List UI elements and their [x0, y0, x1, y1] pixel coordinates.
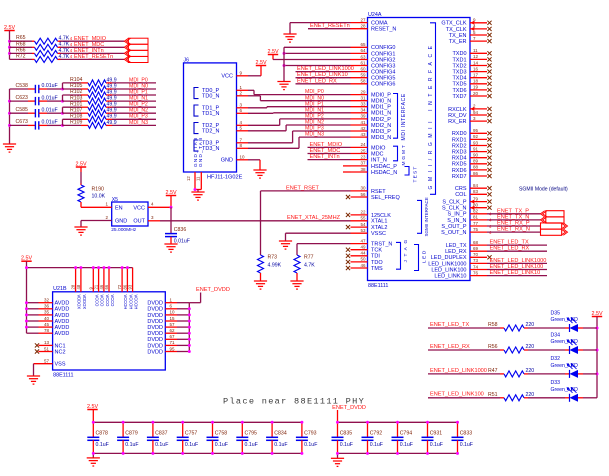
svg-text:MDI_P3: MDI_P3	[305, 126, 324, 132]
pin 4 TD2_P (J6)	[202, 120, 248, 129]
svg-text:39: 39	[360, 114, 366, 119]
svg-text:7: 7	[240, 138, 243, 143]
svg-text:TDO: TDO	[371, 260, 383, 266]
bracket LED	[414, 245, 427, 271]
svg-text:LED_RX: LED_RX	[445, 249, 467, 255]
pin 11 GND_TAB	[195, 172, 201, 190]
pin 57 DVDD (U21B)	[147, 322, 189, 331]
svg-text:46: 46	[360, 263, 366, 268]
svg-text:88: 88	[473, 165, 479, 170]
svg-text:DVDD: DVDD	[147, 307, 163, 313]
wire ENET_DVDD bus	[189, 293, 200, 352]
svg-text:2.5V: 2.5V	[267, 49, 278, 55]
svg-text:VCCOH: VCCOH	[134, 295, 139, 310]
svg-text:R104: R104	[70, 77, 83, 83]
pin 81 S_IN_N (U24A)	[447, 215, 487, 224]
svg-text:CONFIG1: CONFIG1	[371, 51, 395, 57]
svg-text:77: 77	[473, 221, 479, 226]
wire VSSC to ground	[286, 233, 351, 241]
svg-text:VDDOX: VDDOX	[82, 295, 87, 310]
svg-text:TX_ER: TX_ER	[449, 39, 467, 45]
net label ENET_DVDD (right cap bank)	[332, 405, 366, 422]
svg-text:54: 54	[360, 222, 366, 227]
pin 41 MDI2_N (U24A)	[351, 120, 392, 129]
svg-text:0.1uF: 0.1uF	[370, 442, 383, 448]
svg-text:TXD2: TXD2	[452, 63, 466, 69]
svg-text:C585: C585	[16, 107, 29, 113]
svg-text:82: 82	[473, 209, 479, 214]
power 2.5V (CONFIG2)	[267, 49, 278, 55]
pin 57 VSS (U21B)	[34, 359, 66, 377]
svg-text:C835: C835	[340, 431, 353, 437]
svg-text:24: 24	[360, 142, 366, 147]
svg-text:4.7K: 4.7K	[304, 263, 315, 269]
svg-text:27: 27	[360, 17, 366, 22]
svg-text:47: 47	[360, 238, 366, 243]
wire left bank bottom bus	[93, 453, 302, 458]
net label ENET_XTAL_25MHZ	[287, 215, 341, 221]
svg-text:CONFIG5: CONFIG5	[371, 76, 395, 82]
wire TRST_N pulldown	[297, 244, 351, 255]
svg-text:AVDD: AVDD	[55, 319, 70, 325]
svg-text:ENET_RSET: ENET_RSET	[286, 185, 320, 191]
resistor R51 220	[488, 392, 534, 401]
no-connect X (U24A left pin)	[346, 225, 350, 229]
svg-text:2.5V: 2.5V	[165, 190, 176, 196]
svg-text:Green_LED: Green_LED	[551, 387, 579, 393]
node junction CONFIG1	[283, 52, 286, 55]
svg-text:J6: J6	[184, 58, 190, 64]
svg-text:48: 48	[76, 284, 81, 289]
pin 73 LED_LINK1000 (U24A)	[428, 258, 487, 267]
svg-text:MDI_N1: MDI_N1	[129, 96, 148, 102]
svg-text:4.7K: 4.7K	[59, 42, 70, 48]
svg-text:D32: D32	[551, 356, 561, 362]
svg-text:S_OUT_N: S_OUT_N	[441, 230, 466, 236]
label GND_TAB pins	[193, 137, 203, 167]
svg-text:C833: C833	[460, 431, 473, 437]
node junctions LED rail	[596, 327, 599, 376]
wire ENET_LED_LINK1000 row	[428, 373, 597, 375]
node junctions AVDD bus	[25, 301, 28, 328]
svg-text:HSDAC_N: HSDAC_N	[371, 170, 397, 176]
wire right bank top bus	[338, 421, 458, 423]
svg-text:64: 64	[360, 48, 366, 53]
node junction C673	[61, 124, 64, 127]
net label MDI_P2	[305, 114, 324, 120]
svg-text:R68: R68	[16, 41, 26, 47]
pin 92 RXD1 (U24A)	[452, 134, 492, 143]
svg-text:61: 61	[360, 60, 366, 65]
svg-text:MDI_P1: MDI_P1	[305, 101, 324, 107]
svg-text:49.9: 49.9	[107, 89, 117, 95]
pin 6 DVDD (U21B)	[147, 304, 189, 313]
svg-text:ENET_RESETn: ENET_RESETn	[310, 23, 350, 29]
pin 37 HSDAC_P (U24A)	[351, 161, 398, 170]
no-connect X (U24A left pin)	[346, 248, 350, 252]
svg-text:MDI_P0: MDI_P0	[129, 77, 148, 83]
pin 12 TXD1 (U24A)	[452, 54, 491, 63]
svg-text:43: 43	[360, 132, 366, 137]
svg-text:22: 22	[360, 210, 366, 215]
wire ENET_LED_LINK100 row	[428, 397, 597, 399]
pin 4 VCC	[148, 202, 171, 208]
pin 8 TD3_N (J6)	[202, 143, 248, 152]
svg-text:C757: C757	[185, 431, 198, 437]
svg-text:C879: C879	[125, 431, 138, 437]
svg-text:49.9: 49.9	[107, 114, 117, 120]
pin 38 HSDAC_N (U24A)	[351, 167, 398, 176]
pin 62 DVDD (U21B)	[147, 328, 189, 337]
pin 2 TD0_N (J6)	[202, 91, 248, 100]
svg-text:2.5V: 2.5V	[255, 60, 266, 66]
net label MDI_P0	[129, 77, 148, 83]
net label ENET_LED_RX (CONFIG6)	[296, 78, 351, 84]
svg-text:MDI_P1: MDI_P1	[129, 89, 148, 95]
svg-text:XTAL1: XTAL1	[371, 219, 387, 225]
svg-text:CONFIG6: CONFIG6	[371, 82, 395, 88]
pin 9 VCC (J6)	[221, 71, 248, 80]
svg-text:DVDD: DVDD	[147, 349, 163, 355]
pin 45 AVDD (U21B)	[27, 322, 70, 331]
svg-text:75: 75	[473, 227, 479, 232]
capacitor C878 0.1uF	[87, 421, 108, 455]
svg-text:ENET_LED_TX: ENET_LED_TX	[490, 240, 529, 246]
svg-text:TXD3: TXD3	[452, 70, 466, 76]
off-page connector ENET_RX_P	[541, 223, 568, 229]
no-connect X (U24A left pin)	[346, 266, 350, 270]
wire ENET_RSET	[261, 191, 351, 255]
net label MDI_N1	[305, 107, 324, 113]
resistor R66 4.7K	[16, 47, 73, 56]
off-page connector ENET_RESETn	[124, 56, 148, 62]
wire ENET_LED_RX row	[428, 349, 597, 351]
svg-text:93: 93	[128, 284, 133, 289]
power 2.5V (J6 VCC)	[255, 60, 266, 66]
svg-text:4.7K: 4.7K	[59, 54, 70, 60]
svg-text:DVDD: DVDD	[147, 301, 163, 307]
svg-text:S_CLK_P: S_CLK_P	[442, 200, 466, 206]
resistor R77 4.7K	[294, 255, 315, 282]
wire CONFIG2 strap	[273, 55, 351, 60]
svg-text:Green_LED: Green_LED	[551, 317, 579, 323]
svg-text:DVDD: DVDD	[147, 319, 163, 325]
pin 76 LED_LINK10 (U24A)	[434, 270, 487, 279]
svg-text:SEL_FREQ: SEL_FREQ	[371, 195, 400, 201]
svg-text:66: 66	[104, 284, 109, 289]
svg-text:MGMT: MGMT	[401, 143, 407, 165]
svg-text:0.1uF: 0.1uF	[430, 442, 443, 448]
svg-text:LED_TX: LED_TX	[446, 243, 467, 249]
resistor R190 10.0K	[78, 167, 106, 207]
capacitor C585 0.01uF	[10, 107, 63, 117]
svg-text:R72: R72	[16, 53, 26, 59]
wire MDI_P2 row	[63, 107, 157, 113]
pin 4 TX_CLK (U24A)	[446, 24, 492, 33]
net label ENET_LED_LINK100 (U24A)	[487, 264, 547, 270]
net label MDI_N0	[305, 95, 324, 101]
pin 6 TD1_N (J6)	[202, 108, 248, 117]
svg-text:93: 93	[473, 140, 479, 145]
svg-text:X5: X5	[112, 197, 118, 203]
svg-text:MDI1_P: MDI1_P	[371, 105, 391, 111]
net label ENET_LED_TX	[430, 322, 469, 328]
svg-text:95: 95	[473, 128, 479, 133]
pin 16 TXD3 (U24A)	[452, 66, 491, 75]
svg-text:86: 86	[473, 171, 479, 176]
svg-text:1: 1	[105, 202, 108, 207]
pin 2 GND	[81, 215, 112, 227]
svg-text:0.1uF: 0.1uF	[400, 442, 413, 448]
svg-text:ENET_LED_LINK100: ENET_LED_LINK100	[490, 264, 544, 270]
ground (J6 GND pin)	[253, 170, 266, 178]
net label MDI_P3	[129, 114, 148, 120]
svg-text:ENET_MDIO: ENET_MDIO	[74, 36, 107, 42]
svg-text:TXD7: TXD7	[452, 94, 466, 100]
svg-text:94: 94	[473, 110, 479, 115]
net label ENET_LED_RX (U24A)	[487, 246, 547, 252]
svg-text:Green_LED: Green_LED	[551, 339, 579, 345]
wire CONFIG1 strap	[284, 52, 351, 54]
pin 22 125CLK (U24A)	[351, 210, 392, 219]
svg-text:MDI INTERFACE: MDI INTERFACE	[401, 93, 407, 140]
svg-text:53: 53	[360, 228, 366, 233]
ground (right cap bank)	[331, 458, 344, 466]
svg-text:D35: D35	[551, 310, 561, 316]
LED D35 Green_LED	[551, 310, 579, 332]
pin 74 LED_LINK100 (U24A)	[431, 264, 487, 273]
svg-text:RESET_N: RESET_N	[371, 27, 396, 33]
svg-text:ENET_DVDD: ENET_DVDD	[196, 287, 230, 293]
svg-text:4.99K: 4.99K	[268, 263, 282, 269]
svg-text:17: 17	[473, 73, 479, 78]
svg-text:MDI_P0: MDI_P0	[305, 89, 324, 95]
svg-text:4: 4	[240, 120, 243, 125]
svg-text:ENET_LED_LINK100: ENET_LED_LINK100	[430, 392, 484, 398]
svg-text:TXD1: TXD1	[452, 57, 466, 63]
pin 51 NC2 (U21B)	[35, 346, 66, 355]
wire J6 GND	[248, 160, 260, 170]
node junction C585	[61, 112, 64, 115]
pair bracket (J6)	[194, 140, 199, 151]
pin 49 TCK (U24A)	[351, 245, 383, 254]
svg-text:TXD0: TXD0	[452, 51, 466, 57]
svg-text:C931: C931	[430, 431, 443, 437]
svg-text:65: 65	[360, 42, 366, 47]
svg-text:LED_LINK10: LED_LINK10	[434, 274, 466, 280]
svg-text:TRST_N: TRST_N	[371, 242, 392, 248]
svg-text:3: 3	[151, 215, 154, 220]
ground (C836)	[164, 244, 177, 252]
svg-text:HFJ11-1G02E: HFJ11-1G02E	[207, 175, 243, 181]
pin 43 MDI3_N (U24A)	[351, 132, 392, 141]
svg-text:2.5V: 2.5V	[591, 311, 602, 317]
svg-text:92: 92	[473, 134, 479, 139]
pin 60 CONFIG4 (U24A)	[351, 66, 396, 75]
capacitor C931 0.1uF	[422, 421, 443, 455]
svg-text:VCC: VCC	[221, 74, 233, 80]
pin 11 TXD0 (U24A)	[452, 48, 491, 57]
svg-text:U24A: U24A	[368, 12, 382, 18]
svg-text:TXD4: TXD4	[452, 76, 466, 82]
pin 10 DVDD (U21B)	[147, 310, 189, 319]
svg-text:ENET_LED_LINK10: ENET_LED_LINK10	[297, 72, 348, 78]
svg-text:CONFIG4: CONFIG4	[371, 70, 395, 76]
svg-text:62: 62	[170, 328, 176, 333]
pin 44 TDI (U24A)	[351, 251, 381, 260]
svg-text:73: 73	[473, 258, 479, 263]
resistor R56 220	[488, 344, 534, 353]
svg-text:68: 68	[473, 240, 479, 245]
wire 2.5V vertical bus	[9, 31, 11, 60]
wire CONFIG3 strap	[284, 65, 351, 67]
svg-text:78: 78	[44, 328, 50, 333]
svg-text:GND: GND	[221, 158, 233, 164]
capacitor C792 0.1uF	[362, 421, 383, 455]
svg-text:C758: C758	[215, 431, 228, 437]
pin 23 INT_N (U24A)	[351, 154, 387, 163]
resistor R72 4.7K	[16, 53, 73, 62]
svg-text:71: 71	[170, 340, 176, 345]
svg-text:49.9: 49.9	[107, 120, 117, 126]
svg-text:ENET_RX_N: ENET_RX_N	[497, 227, 530, 233]
off-page connector ENET_RX_N	[541, 229, 568, 235]
svg-text:R109: R109	[70, 120, 83, 126]
svg-text:2.5V: 2.5V	[21, 256, 32, 262]
pin 27 COMA (U24A)	[351, 17, 388, 26]
pin 17 TXD4 (U24A)	[452, 73, 491, 82]
svg-text:18: 18	[473, 79, 479, 84]
svg-text:49: 49	[360, 245, 366, 250]
svg-text:TX_CLK: TX_CLK	[446, 27, 467, 33]
ground (X5)	[74, 227, 87, 235]
pin 95 DVDD (U21B)	[147, 346, 189, 355]
wire left bank top bus	[93, 421, 302, 423]
svg-text:1: 1	[170, 298, 173, 303]
pin 68 LED_TX (U24A)	[446, 240, 487, 249]
svg-text:45: 45	[44, 322, 50, 327]
op-amp U21B 88E1111 power block	[53, 286, 166, 378]
ground (COMA)	[283, 34, 296, 42]
svg-text:57: 57	[170, 322, 176, 327]
pin 58 CONFIG6 (U24A)	[351, 79, 396, 88]
svg-text:72: 72	[117, 284, 122, 289]
svg-text:90: 90	[473, 153, 479, 158]
pin 1 DVDD (U21B)	[147, 298, 189, 307]
svg-text:23: 23	[360, 154, 366, 159]
wire J6 VCC to 2.5V	[248, 66, 261, 76]
svg-text:RXD1: RXD1	[452, 137, 467, 143]
pin 33 MDI1_P (U24A)	[351, 102, 392, 111]
svg-text:8: 8	[240, 143, 243, 148]
pair bracket (J6)	[194, 88, 199, 99]
svg-text:63: 63	[360, 54, 366, 59]
svg-text:ENET_TX_N: ENET_TX_N	[497, 214, 529, 220]
svg-text:TCK: TCK	[371, 248, 382, 254]
ground (R77)	[290, 281, 303, 289]
pin 3 TD1_P (J6)	[202, 103, 248, 112]
pin 63 CONFIG2 (U24A)	[351, 54, 396, 63]
svg-text:4: 4	[151, 202, 154, 207]
svg-text:16: 16	[473, 66, 479, 71]
svg-text:MDI2_P: MDI2_P	[371, 117, 391, 123]
no-connect X (U24A left pin)	[346, 213, 350, 217]
svg-text:NC2: NC2	[55, 349, 66, 355]
svg-text:10.0K: 10.0K	[92, 194, 106, 200]
pin 59 CONFIG5 (U24A)	[351, 73, 396, 82]
svg-text:GTX_CLK: GTX_CLK	[441, 21, 466, 27]
svg-text:TXD5: TXD5	[452, 82, 466, 88]
svg-text:S_CLK_N: S_CLK_N	[442, 206, 466, 212]
svg-text:R77: R77	[304, 255, 314, 261]
svg-text:C836: C836	[174, 227, 187, 233]
net label ENET_RESETn	[308, 23, 351, 29]
svg-text:S_IN_N: S_IN_N	[447, 218, 466, 224]
svg-text:67: 67	[170, 334, 176, 339]
pin 83 COL (U24A)	[455, 189, 491, 198]
svg-text:6: 6	[170, 304, 173, 309]
resistor R65 4.7K	[16, 35, 73, 44]
svg-text:ENET_RX_P: ENET_RX_P	[497, 221, 530, 227]
svg-text:R190: R190	[92, 187, 105, 193]
svg-text:83: 83	[473, 189, 479, 194]
svg-text:VSSC: VSSC	[371, 231, 386, 237]
svg-text:MDI1_N: MDI1_N	[371, 111, 391, 117]
svg-text:ENET_LED_LINK1000: ENET_LED_LINK1000	[297, 66, 354, 72]
pin 86 VCCOH (U21B top)	[122, 266, 133, 309]
pin 10 GND (J6)	[221, 155, 248, 164]
capacitor C794 0.1uF	[392, 421, 413, 455]
svg-text:ENET_LED_RX: ENET_LED_RX	[490, 246, 530, 252]
svg-text:ENET_LED_LINK10: ENET_LED_LINK10	[490, 270, 541, 276]
node junction C623	[61, 100, 64, 103]
pin 79 S_CLK_P (U24A)	[442, 196, 491, 205]
svg-text:MDI_N1: MDI_N1	[305, 107, 324, 113]
svg-text:DVDD: DVDD	[147, 331, 163, 337]
capacitor C758 0.1uF	[207, 421, 228, 455]
svg-text:COL: COL	[455, 192, 466, 198]
no-connect X (U24A left pin)	[346, 195, 350, 199]
pin 86 RXD7 (U24A)	[452, 171, 492, 180]
net label ENET_LED_TX (U24A)	[487, 240, 547, 246]
net label ENET_MDC	[308, 148, 351, 154]
op-amp U24A 88E1111 PHY block	[368, 12, 471, 289]
net label ENET_MDC	[74, 42, 104, 48]
svg-text:220: 220	[526, 344, 535, 350]
svg-text:2: 2	[105, 215, 108, 220]
wire MDI_N3 row	[63, 124, 157, 126]
svg-text:C795: C795	[245, 431, 258, 437]
svg-text:95: 95	[170, 346, 176, 351]
svg-text:R65: R65	[16, 35, 26, 41]
net label ENET_MDIO	[308, 142, 351, 148]
net label MDI_P3	[305, 126, 324, 132]
svg-text:DVDD: DVDD	[147, 337, 163, 343]
svg-text:20: 20	[473, 91, 479, 96]
pin 40 AVDD (U21B)	[27, 316, 70, 325]
svg-text:12: 12	[186, 176, 191, 181]
svg-text:30: 30	[360, 186, 366, 191]
pin 9 GTX_CLK (U24A)	[441, 18, 491, 27]
pin 5 TX_EN (U24A)	[449, 30, 492, 39]
net label ENET_MDIO	[74, 36, 107, 42]
svg-text:R73: R73	[268, 255, 278, 261]
svg-text:36: 36	[44, 304, 50, 309]
net label ENET_DVDD (U21B)	[196, 287, 230, 293]
oscillator X5 25.000MHz	[111, 197, 148, 233]
svg-text:0.1uF: 0.1uF	[155, 442, 168, 448]
svg-text:INT_N: INT_N	[371, 158, 387, 164]
